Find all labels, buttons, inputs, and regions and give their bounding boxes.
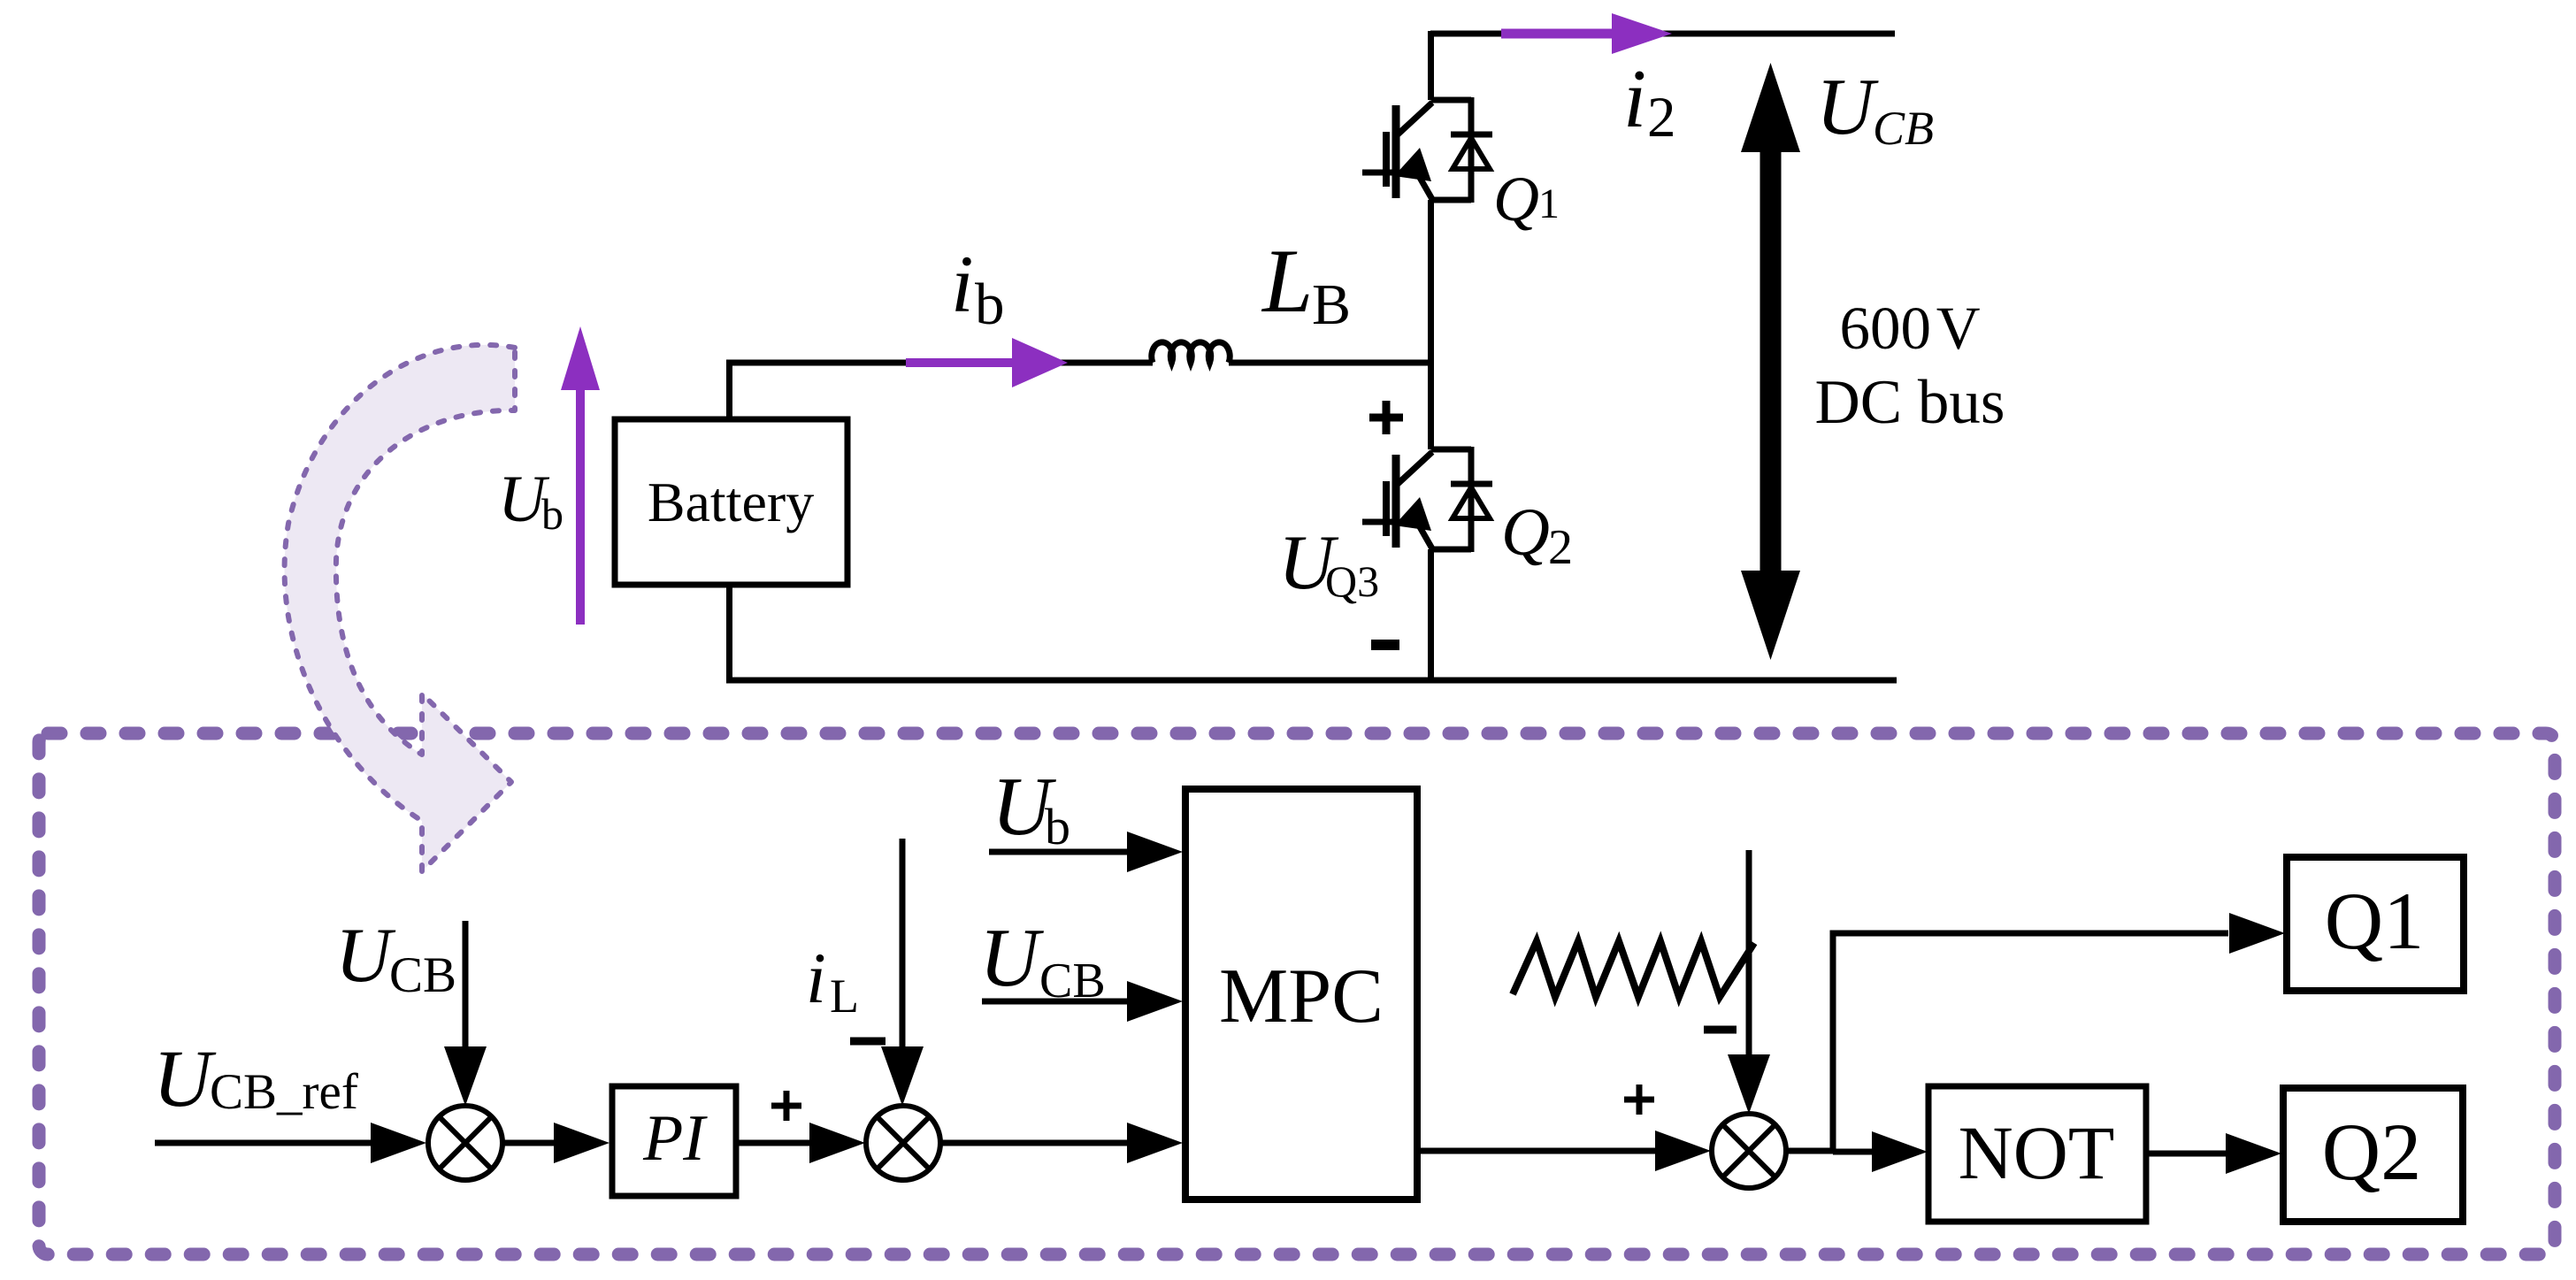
- svg-text:i: i: [806, 938, 826, 1018]
- svg-text:Q: Q: [1501, 495, 1550, 570]
- svg-text:U: U: [979, 912, 1044, 1004]
- svg-text:i: i: [1623, 53, 1646, 145]
- sawtooth carrier: [1513, 941, 1754, 997]
- ib current arrow (purple): [906, 358, 1014, 367]
- inductor LB coil: [1152, 342, 1230, 363]
- svg-text:MPC: MPC: [1219, 954, 1384, 1039]
- arrow MPC to junction 3: [1417, 1148, 1655, 1154]
- svg-text:DC bus: DC bus: [1814, 368, 2005, 437]
- Ub voltage arrow (purple): [576, 385, 585, 625]
- svg-text:Q3: Q3: [1325, 556, 1379, 606]
- svg-text:U: U: [1816, 62, 1879, 151]
- wire switch-leg vertical segments: [1428, 31, 1434, 680]
- svg-text:Q1: Q1: [2325, 876, 2424, 966]
- svg-text:CB: CB: [389, 947, 456, 1003]
- plus sign at junction 3: [1624, 1085, 1654, 1115]
- summing junction 1: [428, 1106, 502, 1180]
- polarity plus sign at UQ3: [1369, 401, 1403, 434]
- Q2 box: [2283, 1088, 2463, 1222]
- arrow UCB into MPC: [982, 999, 1127, 1005]
- svg-text:1: 1: [1538, 180, 1560, 227]
- arrow Ub into MPC: [989, 849, 1127, 855]
- vertical arrow into junction 2: [900, 839, 906, 1046]
- arrow PI to junction 2: [736, 1140, 810, 1146]
- wire battery positive to switch node (with inductor gap): [730, 363, 1431, 419]
- svg-text:b: b: [541, 489, 563, 539]
- svg-text:b: b: [1045, 798, 1070, 855]
- control-box dashed border: [39, 733, 2555, 1254]
- svg-text:Q2: Q2: [2322, 1107, 2421, 1197]
- svg-text:Battery: Battery: [648, 471, 814, 533]
- svg-text:B: B: [1312, 272, 1351, 337]
- arrow NOT to Q2: [2146, 1151, 2226, 1157]
- svg-text:2: 2: [1647, 86, 1676, 149]
- summing junction 2: [866, 1106, 940, 1180]
- transistor Q1 (IGBT): [1362, 100, 1471, 201]
- svg-text:i: i: [951, 239, 974, 329]
- PI box: [612, 1086, 736, 1196]
- antiparallel diode of Q1: [1451, 97, 1492, 203]
- UCB bus-voltage double-headed arrow: [1760, 142, 1782, 584]
- branch up to Q1: [1833, 933, 2228, 1151]
- minus sign at junction 3: [1704, 1026, 1736, 1034]
- svg-text:L: L: [1261, 231, 1313, 332]
- wire top DC bus: [1430, 31, 1895, 37]
- plus sign after PI: [771, 1091, 801, 1121]
- antiparallel diode of Q2: [1451, 447, 1492, 552]
- wire battery negative / bottom bus: [730, 585, 1897, 680]
- svg-text:2: 2: [1548, 520, 1573, 575]
- svg-text:NOT: NOT: [1959, 1110, 2115, 1195]
- input arrow to junction 1: [155, 1140, 372, 1146]
- svg-text:600 V: 600 V: [1839, 295, 1980, 362]
- vertical arrow into junction 3: [1746, 850, 1752, 1054]
- vertical arrow into junction 1: [463, 921, 469, 1046]
- curved block arrow from Battery to control box: [285, 345, 515, 871]
- minus sign at junction 2: [850, 1038, 885, 1046]
- NOT box: [1928, 1086, 2146, 1222]
- svg-text:PI: PI: [642, 1102, 708, 1175]
- Q1 box: [2287, 857, 2464, 991]
- svg-text:Q: Q: [1493, 164, 1539, 234]
- i2 current arrow (purple) on top bus wire: [1501, 29, 1619, 39]
- MPC box: [1185, 789, 1417, 1200]
- arrow junction1 to PI: [502, 1140, 554, 1146]
- svg-text:CB_ref: CB_ref: [210, 1064, 358, 1120]
- polarity minus sign at UQ3: [1371, 640, 1399, 650]
- svg-text:U: U: [335, 913, 396, 999]
- arrow junction 2 to MPC: [940, 1140, 1127, 1146]
- transistor Q2 (IGBT): [1362, 449, 1471, 550]
- wire to NOT: [1833, 1149, 1874, 1155]
- svg-text:L: L: [830, 970, 859, 1023]
- summing junction 3: [1712, 1114, 1786, 1188]
- svg-text:U: U: [153, 1033, 217, 1123]
- svg-text:CB: CB: [1873, 102, 1934, 155]
- battery: [615, 419, 847, 585]
- wire junction3 to branch: [1786, 1148, 1833, 1154]
- svg-text:b: b: [975, 272, 1005, 337]
